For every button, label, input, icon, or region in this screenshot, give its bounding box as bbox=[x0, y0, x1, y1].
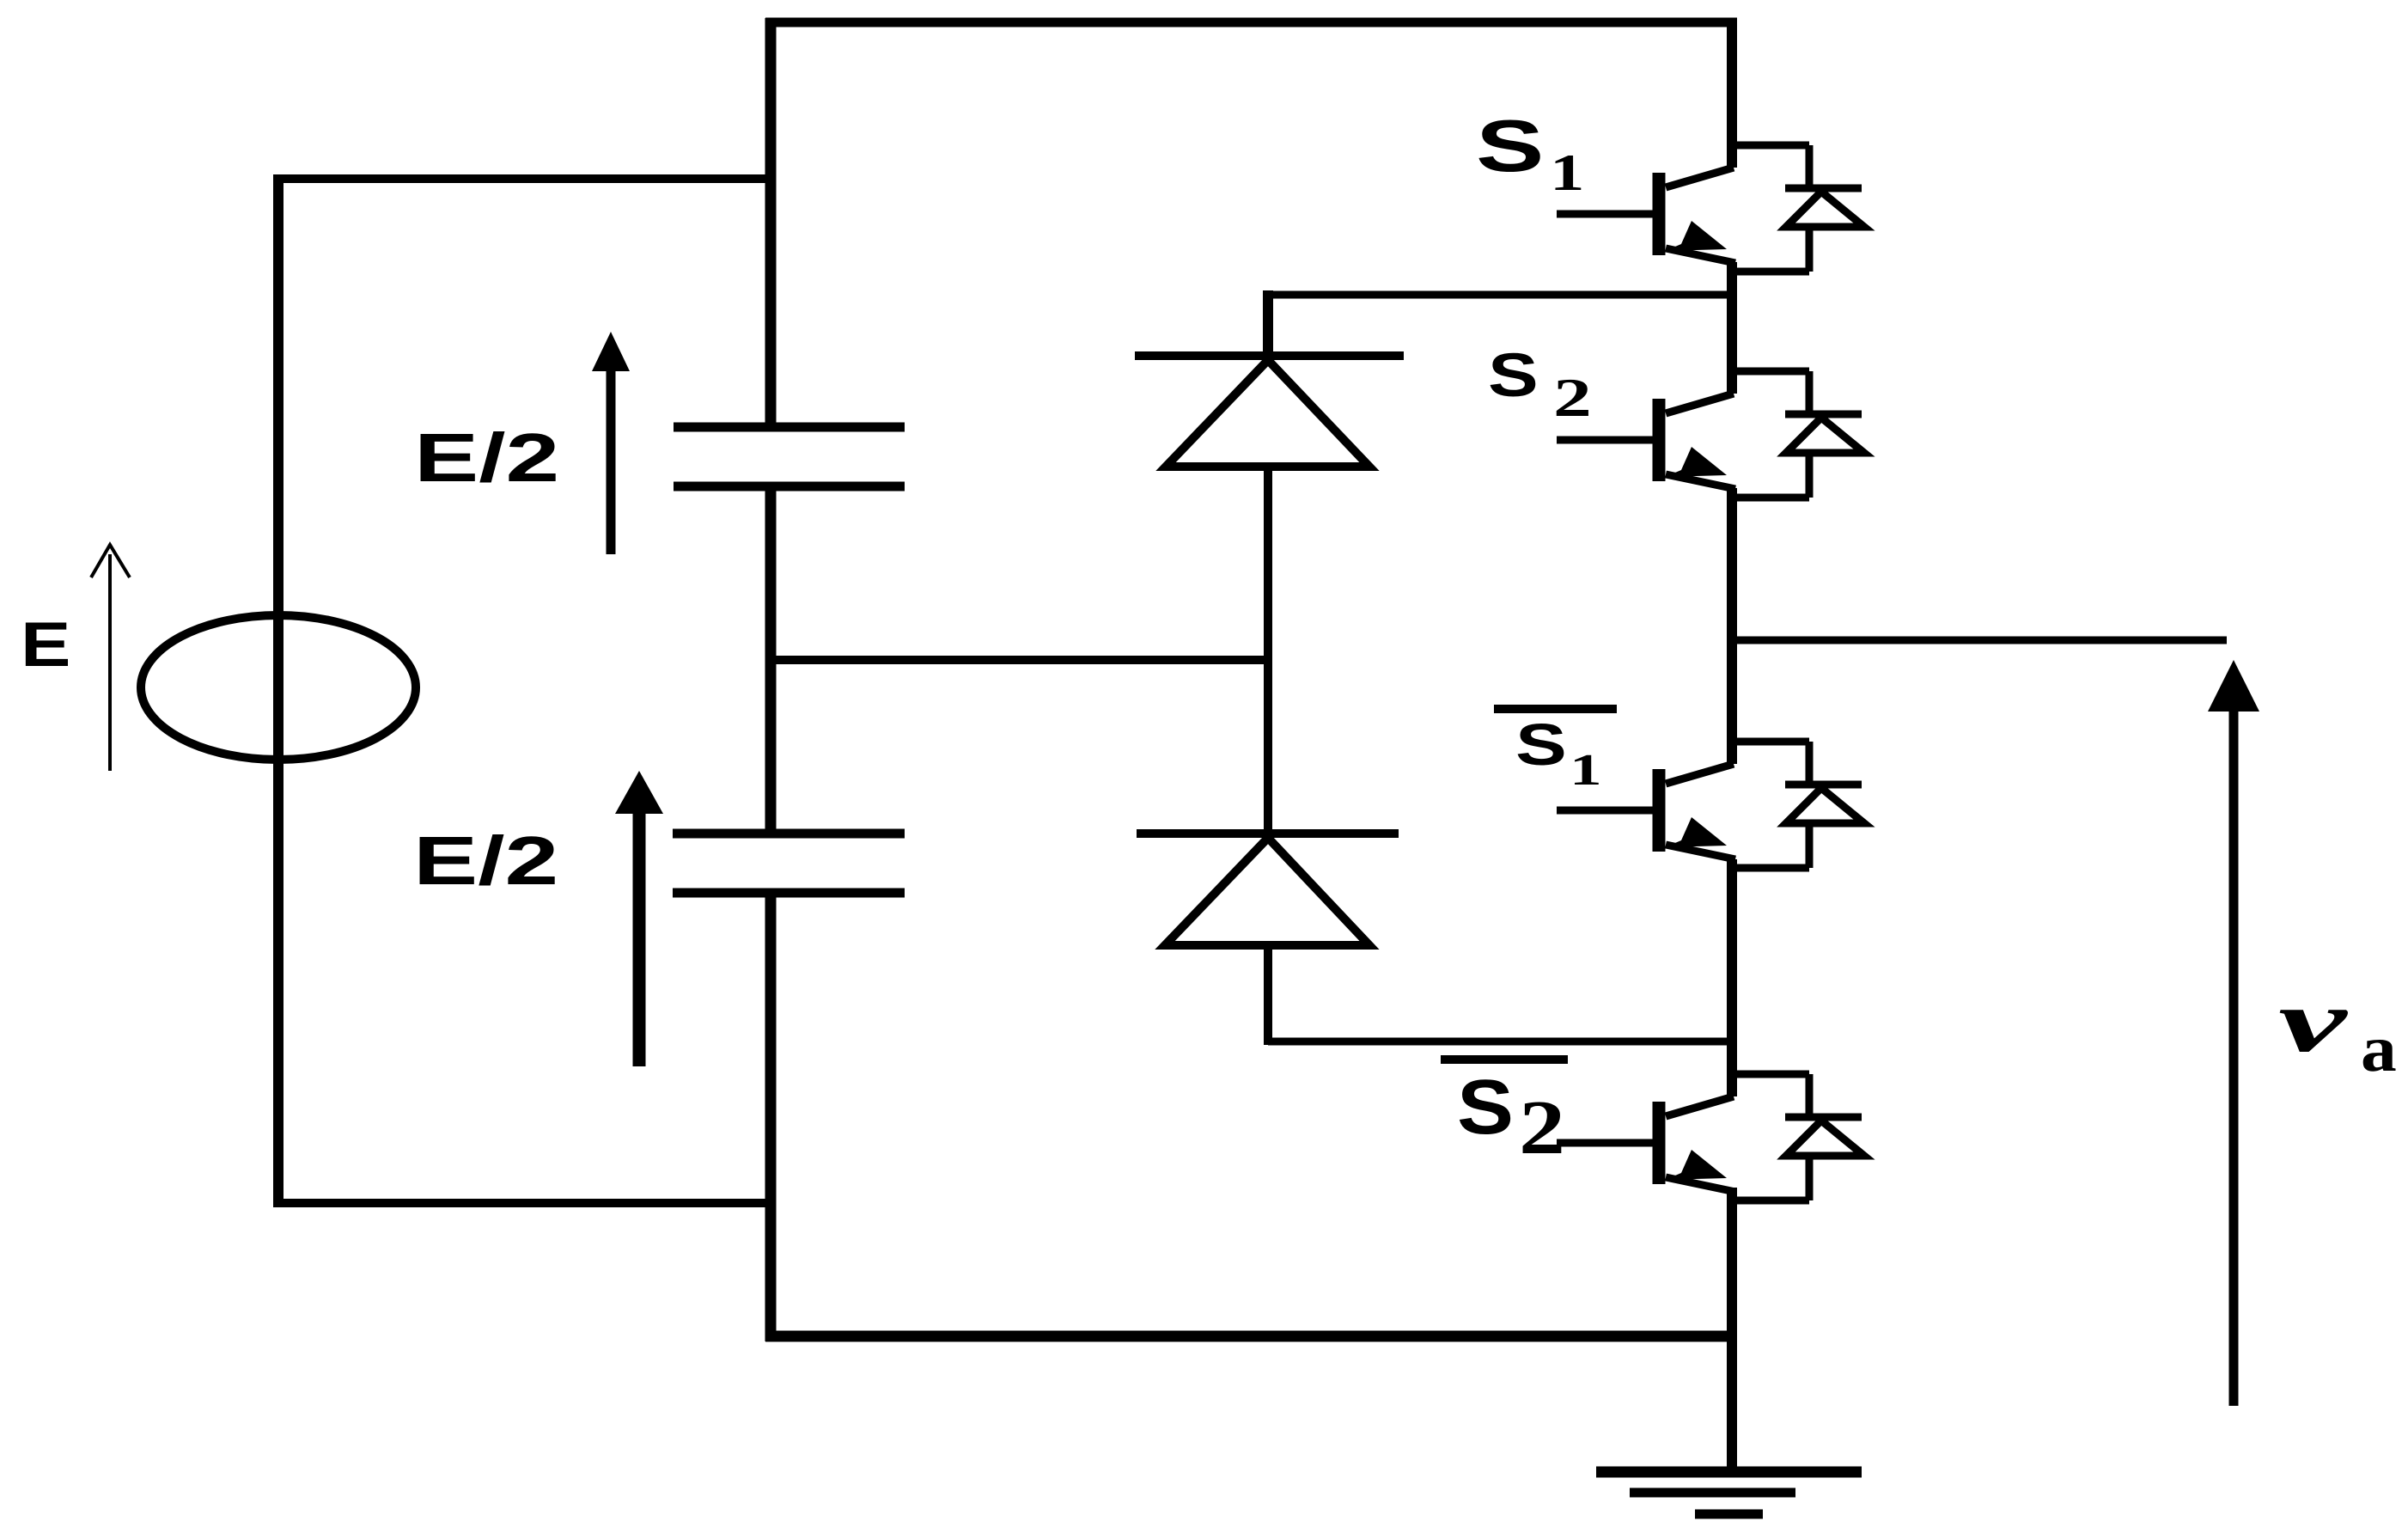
arrow E bbox=[91, 545, 130, 771]
svg-text:1: 1 bbox=[1570, 745, 1602, 795]
svg-text:a: a bbox=[2361, 1013, 2397, 1085]
diode D6 (lower clamp) bbox=[1137, 834, 1399, 1045]
wire main rail segment 5 bbox=[1727, 1188, 1737, 1471]
wire bottom bus bbox=[765, 1331, 1732, 1342]
transistor S1 (IGBT) bbox=[1557, 168, 1735, 263]
diode D5 (upper clamp) bbox=[1135, 290, 1404, 834]
transistor S2bar (IGBT) bbox=[1557, 1096, 1735, 1192]
diode D2 (antiparallel of S2) bbox=[1728, 371, 1864, 498]
label S1bar bbox=[1494, 709, 1617, 795]
transistor S1bar (IGBT) bbox=[1557, 764, 1735, 859]
svg-text:2: 2 bbox=[1519, 1084, 1565, 1170]
svg-text:S: S bbox=[1515, 712, 1567, 778]
svg-text:1: 1 bbox=[1550, 144, 1585, 202]
svg-text:S: S bbox=[1457, 1064, 1514, 1151]
wire top bus bbox=[765, 18, 1737, 27]
wire main rail segment 2 bbox=[1727, 262, 1737, 394]
wire neutral midline bbox=[771, 656, 1268, 664]
arrow E/2 lower bbox=[615, 771, 663, 1066]
svg-text:S: S bbox=[1488, 341, 1539, 409]
wire node S1b-S2b to clamp diode D6 bbox=[1268, 1038, 1732, 1046]
arrow va bbox=[2208, 660, 2259, 1406]
svg-text:2: 2 bbox=[1553, 367, 1592, 428]
wire main rail segment 4 bbox=[1727, 859, 1737, 1096]
label S2bar bbox=[1441, 1060, 1568, 1170]
diode D3 (antiparallel of S1bar) bbox=[1728, 742, 1864, 868]
transistor S2 (IGBT) bbox=[1557, 394, 1735, 489]
wire node S1-S2 to clamp diode D5 bbox=[1268, 291, 1732, 299]
svg-text:v: v bbox=[2278, 972, 2349, 1071]
label va bbox=[2278, 972, 2397, 1086]
capacitor C1 bbox=[674, 427, 905, 486]
wire source vertical bbox=[273, 174, 283, 1207]
capacitor C2 bbox=[673, 834, 905, 893]
wire output node line bbox=[1732, 637, 2227, 644]
wire source bottom horizontal bbox=[278, 1199, 771, 1207]
svg-text:E/2: E/2 bbox=[413, 821, 558, 899]
ground bbox=[1596, 1472, 1862, 1514]
diode D4 (antiparallel of S2bar) bbox=[1728, 1074, 1864, 1200]
svg-text:S: S bbox=[1476, 105, 1544, 186]
wire between capacitors bbox=[765, 486, 777, 834]
wire left DC rail lower segment bbox=[765, 893, 777, 1341]
wire main rail segment 1 bbox=[1727, 18, 1737, 168]
svg-text:E: E bbox=[21, 610, 70, 680]
wire source top horizontal bbox=[273, 174, 771, 183]
wire main rail segment 3 bbox=[1727, 488, 1737, 764]
diode D1 (antiparallel of S1) bbox=[1728, 145, 1864, 272]
wire left DC rail upper segment bbox=[765, 18, 777, 423]
svg-text:E/2: E/2 bbox=[414, 418, 559, 496]
arrow E/2 upper bbox=[592, 332, 630, 554]
voltage source E bbox=[141, 615, 416, 760]
